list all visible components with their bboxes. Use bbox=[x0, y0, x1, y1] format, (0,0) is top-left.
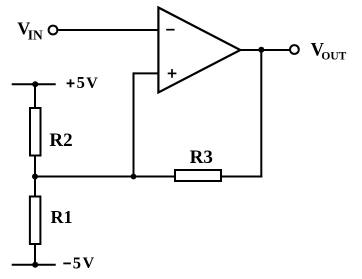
resistor R2 bbox=[30, 108, 41, 156]
svg-text:5: 5 bbox=[73, 253, 81, 272]
wire non-inverting input vertical bbox=[133, 72, 135, 176]
wire R2 to junction bbox=[34, 156, 36, 178]
power rail -5V bar bbox=[12, 264, 56, 266]
resistor R3 bbox=[175, 170, 221, 181]
label +5V bbox=[67, 82, 75, 84]
wire output feedback vertical bbox=[260, 50, 262, 178]
wire junction to R1 bbox=[34, 177, 36, 197]
op-amp minus pin symbol bbox=[166, 29, 174, 31]
node -5V junction bbox=[32, 262, 38, 268]
wire VIN to op-amp inverting input bbox=[58, 29, 159, 31]
wire non-inverting input horizontal bbox=[134, 72, 160, 74]
op-amp U1 bbox=[158, 8, 240, 93]
svg-text:R2: R2 bbox=[49, 130, 72, 151]
node junction at R3 left net bbox=[131, 174, 137, 180]
wire R1 to -5V rail bbox=[34, 244, 36, 265]
wire main horizontal net bbox=[35, 176, 176, 178]
wire R3 right to feedback vertical bbox=[221, 176, 262, 178]
label -5V bbox=[63, 262, 71, 264]
svg-text:V: V bbox=[83, 255, 95, 272]
terminal VOUT bbox=[290, 45, 299, 54]
svg-text:5: 5 bbox=[77, 73, 85, 92]
wire +5V to R2 bbox=[34, 84, 36, 108]
power rail +5V bar bbox=[12, 83, 56, 85]
svg-text:IN: IN bbox=[28, 27, 43, 42]
op-amp plus pin symbol bbox=[168, 72, 177, 74]
svg-text:OUT: OUT bbox=[321, 50, 346, 62]
resistor R1 bbox=[30, 197, 41, 245]
node divider junction bbox=[32, 174, 38, 180]
wire op-amp output bbox=[239, 49, 290, 51]
svg-text:R1: R1 bbox=[51, 207, 73, 227]
svg-text:V: V bbox=[86, 75, 98, 92]
terminal VIN bbox=[49, 26, 58, 35]
node +5V junction bbox=[32, 81, 38, 87]
svg-text:R3: R3 bbox=[190, 147, 213, 168]
node output junction bbox=[258, 47, 264, 53]
